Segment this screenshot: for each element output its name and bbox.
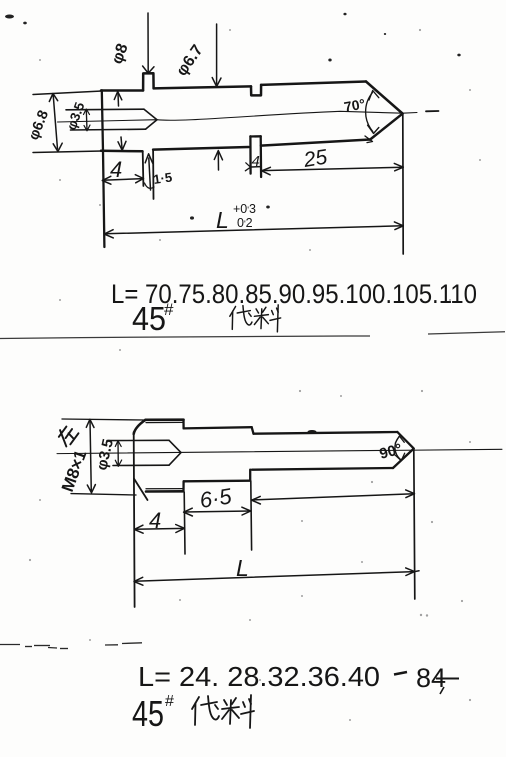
top edge 6.5 section <box>184 427 252 428</box>
leader phi6.7 vertical <box>216 24 218 84</box>
left bottom chamfer (overshooting stroke) <box>134 479 148 501</box>
thread top minor line <box>146 421 183 423</box>
leader phi6.7 arrowhead <box>212 78 221 87</box>
top edge main shaft <box>254 432 398 434</box>
small corner arrow bottom cone <box>365 136 373 143</box>
ink blob on top edge <box>308 430 317 434</box>
90 degree arc bottom tip <box>395 437 401 460</box>
phi6.7 lower arrow <box>217 152 219 170</box>
thread end step bottom <box>182 481 184 491</box>
phi6.8 top arrowhead <box>49 94 57 102</box>
leader phi8 vertical <box>147 13 149 72</box>
unlabeled dimension line <box>252 494 414 500</box>
center drill hole top line <box>66 108 144 111</box>
hanzi zuo (left) <box>55 423 79 448</box>
boss phi8 <box>143 73 154 90</box>
left end face vertical with extension down <box>102 90 105 247</box>
dash before 84 <box>394 672 407 675</box>
inner up arrow at big diameter top <box>117 93 120 106</box>
step down top <box>252 427 254 434</box>
svg-text:4: 4 <box>149 508 161 533</box>
threaded hole bottom line <box>113 464 169 466</box>
cone top edge <box>366 82 403 114</box>
wire bottom edge left section <box>101 150 143 153</box>
groove left vertical <box>142 151 145 186</box>
undercut groove top <box>250 135 260 137</box>
phi6.8 bottom arrowhead <box>53 143 62 151</box>
left top chamfer <box>134 420 146 434</box>
svg-text:#: # <box>165 693 174 710</box>
hanzi dai liao bottom <box>192 695 254 728</box>
svg-text:L: L <box>216 207 229 233</box>
undercut groove left vertical <box>249 136 252 173</box>
thread bottom minor line <box>146 488 183 490</box>
wire top edge right section <box>261 82 366 85</box>
wire bottom edge right section <box>261 140 370 146</box>
svg-text:L= 24. 28.32.36.40: L= 24. 28.32.36.40 <box>138 661 380 692</box>
bottom edge main shaft <box>252 468 393 470</box>
hanzi dai liao top <box>230 305 281 332</box>
right tip bottom chamfer <box>393 449 414 468</box>
thread top major line <box>146 418 184 421</box>
phi3.5 dim vertical bottom drawing <box>117 441 119 466</box>
centerline axis <box>58 111 418 122</box>
left face vertical and long extension <box>133 432 136 607</box>
right apex extension vertical <box>402 114 404 254</box>
thread end step top <box>182 420 184 429</box>
dimension 4 line right groove <box>251 166 261 168</box>
svg-text:+0'3: +0'3 <box>233 202 256 216</box>
svg-text:6·5: 6·5 <box>198 483 234 513</box>
M8 dimension vertical <box>90 420 91 493</box>
wire top extension line upper left <box>33 91 102 95</box>
dimension L tolerance line <box>105 226 404 234</box>
dimension L bottom <box>134 571 419 582</box>
notch top <box>251 85 261 96</box>
bottom edge 6.5 section <box>184 480 250 483</box>
fold dashes lower left <box>0 643 142 649</box>
inner down arrow at big diameter bottom <box>121 137 122 148</box>
leader phi8 arrowhead <box>143 66 154 73</box>
svg-text:L: L <box>236 555 249 581</box>
phi3.5 dimension line <box>85 110 88 131</box>
svg-text:#: # <box>164 300 174 319</box>
svg-text:1·5: 1·5 <box>152 170 173 187</box>
right tip top chamfer <box>397 432 413 448</box>
bottom drawing: top extension line <box>62 419 145 420</box>
dimension 4 bottom drawing <box>135 527 185 530</box>
scan specks <box>5 13 461 220</box>
svg-text:25: 25 <box>301 146 329 173</box>
dimension 4 line left groove <box>103 179 144 181</box>
hole drill point <box>169 440 181 465</box>
svg-text:45: 45 <box>132 300 166 337</box>
M8 bottom extension line <box>71 494 136 495</box>
dimension 6.5 line <box>184 511 251 512</box>
70 degree arc <box>366 93 373 132</box>
svg-text:0'2: 0'2 <box>237 216 253 230</box>
step down bottom <box>249 470 251 481</box>
groove right vertical <box>152 150 154 199</box>
phi6.8 dimension line <box>53 95 57 149</box>
centerline right segment <box>426 110 439 112</box>
extension vertical x184 <box>183 492 186 554</box>
bottom centerline axis <box>57 449 502 453</box>
apex extension vertical bottom <box>414 449 415 599</box>
leader 1.5 arrow <box>149 158 151 190</box>
cone bottom edge <box>370 114 403 140</box>
svg-text:4: 4 <box>110 157 122 182</box>
thread bottom major line <box>146 490 183 493</box>
wire bottom extension line left <box>33 151 102 153</box>
svg-text:45: 45 <box>132 693 164 734</box>
threaded hole top line <box>107 439 169 441</box>
dimension 25 line <box>262 167 403 170</box>
wire top edge left section <box>101 89 143 92</box>
center drill hole bottom line <box>71 128 146 131</box>
extension vertical x251 <box>250 481 253 550</box>
wire top edge mid section <box>154 86 251 88</box>
fold line middle <box>0 336 370 339</box>
undercut groove right vertical <box>260 136 263 177</box>
wire bottom edge mid section <box>153 147 249 150</box>
svg-text:4: 4 <box>252 153 260 170</box>
drill point chevron <box>144 109 157 129</box>
